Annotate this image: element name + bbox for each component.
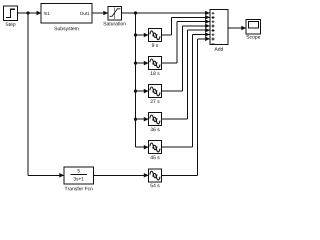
wire bus to delay 27 s [136,89,149,94]
transfer fcn block Transfer Fcn 5/(3s+1) [64,167,93,191]
saturation block Saturation [103,7,125,26]
adder block Add [210,10,228,51]
wire Step to Subsystem [18,11,42,16]
wire delay 27 s to Add input 4 [162,24,210,92]
wire delay 36 s to Add input 5 [162,28,210,119]
junction node bus row 1 [134,33,137,36]
wire Add to Scope [228,26,246,31]
wire bus to delay 36 s [136,117,149,122]
wire Subsystem to Saturation [92,11,108,16]
wire vertical bus from saturation branch [135,13,137,147]
wire delay 18 s to Add input 3 [162,19,210,63]
wire Saturation to Add input 1 [121,11,210,16]
wire delay 45 s to Add input 6 [162,32,210,147]
transport delay block 18 s [149,57,162,75]
transport delay block 54 s [149,169,162,187]
transport delay block 27 s [149,85,162,103]
wire bus to delay 18 s [136,61,149,66]
junction node saturation branch [134,11,137,14]
junction node bus row 4 [134,118,137,121]
transport delay block 36 s [149,113,162,131]
wire Transfer Fcn to delay 54 s [93,173,148,178]
wire bus to delay 45 s [136,145,149,150]
transport delay block 9 s [149,29,162,47]
wire Step branch to Transfer Fcn [28,13,64,178]
wire delay 9 s to Add input 2 [162,15,210,35]
junction node bus row 3 [134,90,137,93]
wire delay 54 s to Add input 7 [162,37,210,176]
scope block Scope [246,19,261,39]
transport delay block 45 s [149,141,162,159]
step source Step [4,6,18,27]
wire bus to delay 9 s [136,33,149,38]
junction node step branch [26,11,29,14]
junction node bus row 2 [134,62,137,65]
subsystem block Subsystem [41,4,92,32]
